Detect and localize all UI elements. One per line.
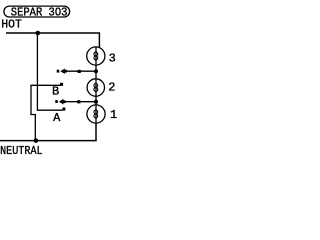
svg-text:HOT: HOT (1, 18, 22, 32)
svg-text:A: A (53, 111, 61, 125)
svg-text:2: 2 (108, 80, 115, 94)
svg-text:NEUTRAL: NEUTRAL (0, 144, 43, 158)
svg-text:3: 3 (109, 51, 116, 65)
svg-text:B: B (52, 85, 59, 99)
svg-text:1: 1 (110, 108, 117, 122)
